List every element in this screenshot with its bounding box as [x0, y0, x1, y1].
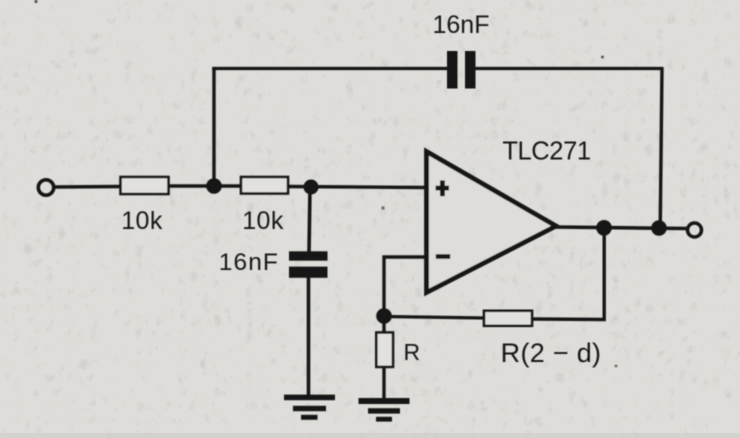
wire input to R1 [54, 185, 122, 189]
node C junction dot [596, 220, 612, 236]
resistor R1 [121, 177, 169, 194]
svg-text:16nF: 16nF [219, 249, 279, 276]
label TLC271 (U1) [502, 138, 590, 166]
svg-text:R: R [404, 339, 421, 365]
input terminal [38, 180, 53, 195]
wire R1 to R2 [169, 184, 243, 187]
ground G2 [359, 398, 410, 422]
label 10k (R2) [242, 207, 284, 235]
speck near top wire [601, 56, 604, 59]
speck near R(2-d) [615, 365, 618, 368]
wire R4 to node C [532, 228, 604, 320]
wire op-amp output [554, 227, 687, 229]
svg-text:R(2 − d): R(2 − d) [501, 338, 602, 368]
wire top left to C1 [212, 67, 448, 70]
ground G1 [284, 395, 335, 420]
resistor R2 [241, 177, 288, 194]
wire right feedback vertical [660, 67, 662, 228]
wire node E to R3 [382, 316, 385, 333]
node A junction dot [206, 178, 222, 194]
svg-text:10k: 10k [242, 207, 284, 235]
wire R2 to op-amp plus input [288, 187, 426, 188]
wire node B down to C2 [309, 187, 310, 253]
wire C1 to right corner [475, 67, 663, 70]
wire op-amp minus input [384, 257, 426, 316]
op-amp U1 [427, 152, 557, 293]
wire node A up [212, 67, 215, 186]
label 10k (R1) [121, 207, 163, 235]
svg-text:16nF: 16nF [433, 11, 490, 39]
wire node E to R4 [384, 317, 485, 319]
label 16nF (C2) [219, 249, 279, 276]
speck below plus input wire [381, 206, 384, 209]
label R(2 - d) (R4) [501, 338, 602, 368]
node B junction dot [304, 180, 319, 195]
resistor R4 [484, 311, 532, 326]
capacitor C2 [289, 251, 328, 278]
svg-text:TLC271: TLC271 [502, 138, 590, 166]
svg-text:10k: 10k [121, 207, 163, 235]
label 16nF (C1) [433, 11, 490, 39]
node E junction dot [376, 308, 392, 324]
resistor R3 [376, 333, 393, 367]
speck top left [34, 0, 37, 3]
wire R3 to ground [382, 367, 385, 401]
label R (R3) [404, 339, 421, 365]
capacitor C1 [447, 51, 476, 89]
node D junction dot [651, 220, 667, 236]
wire C2 to ground [307, 277, 311, 397]
output terminal [688, 223, 702, 237]
